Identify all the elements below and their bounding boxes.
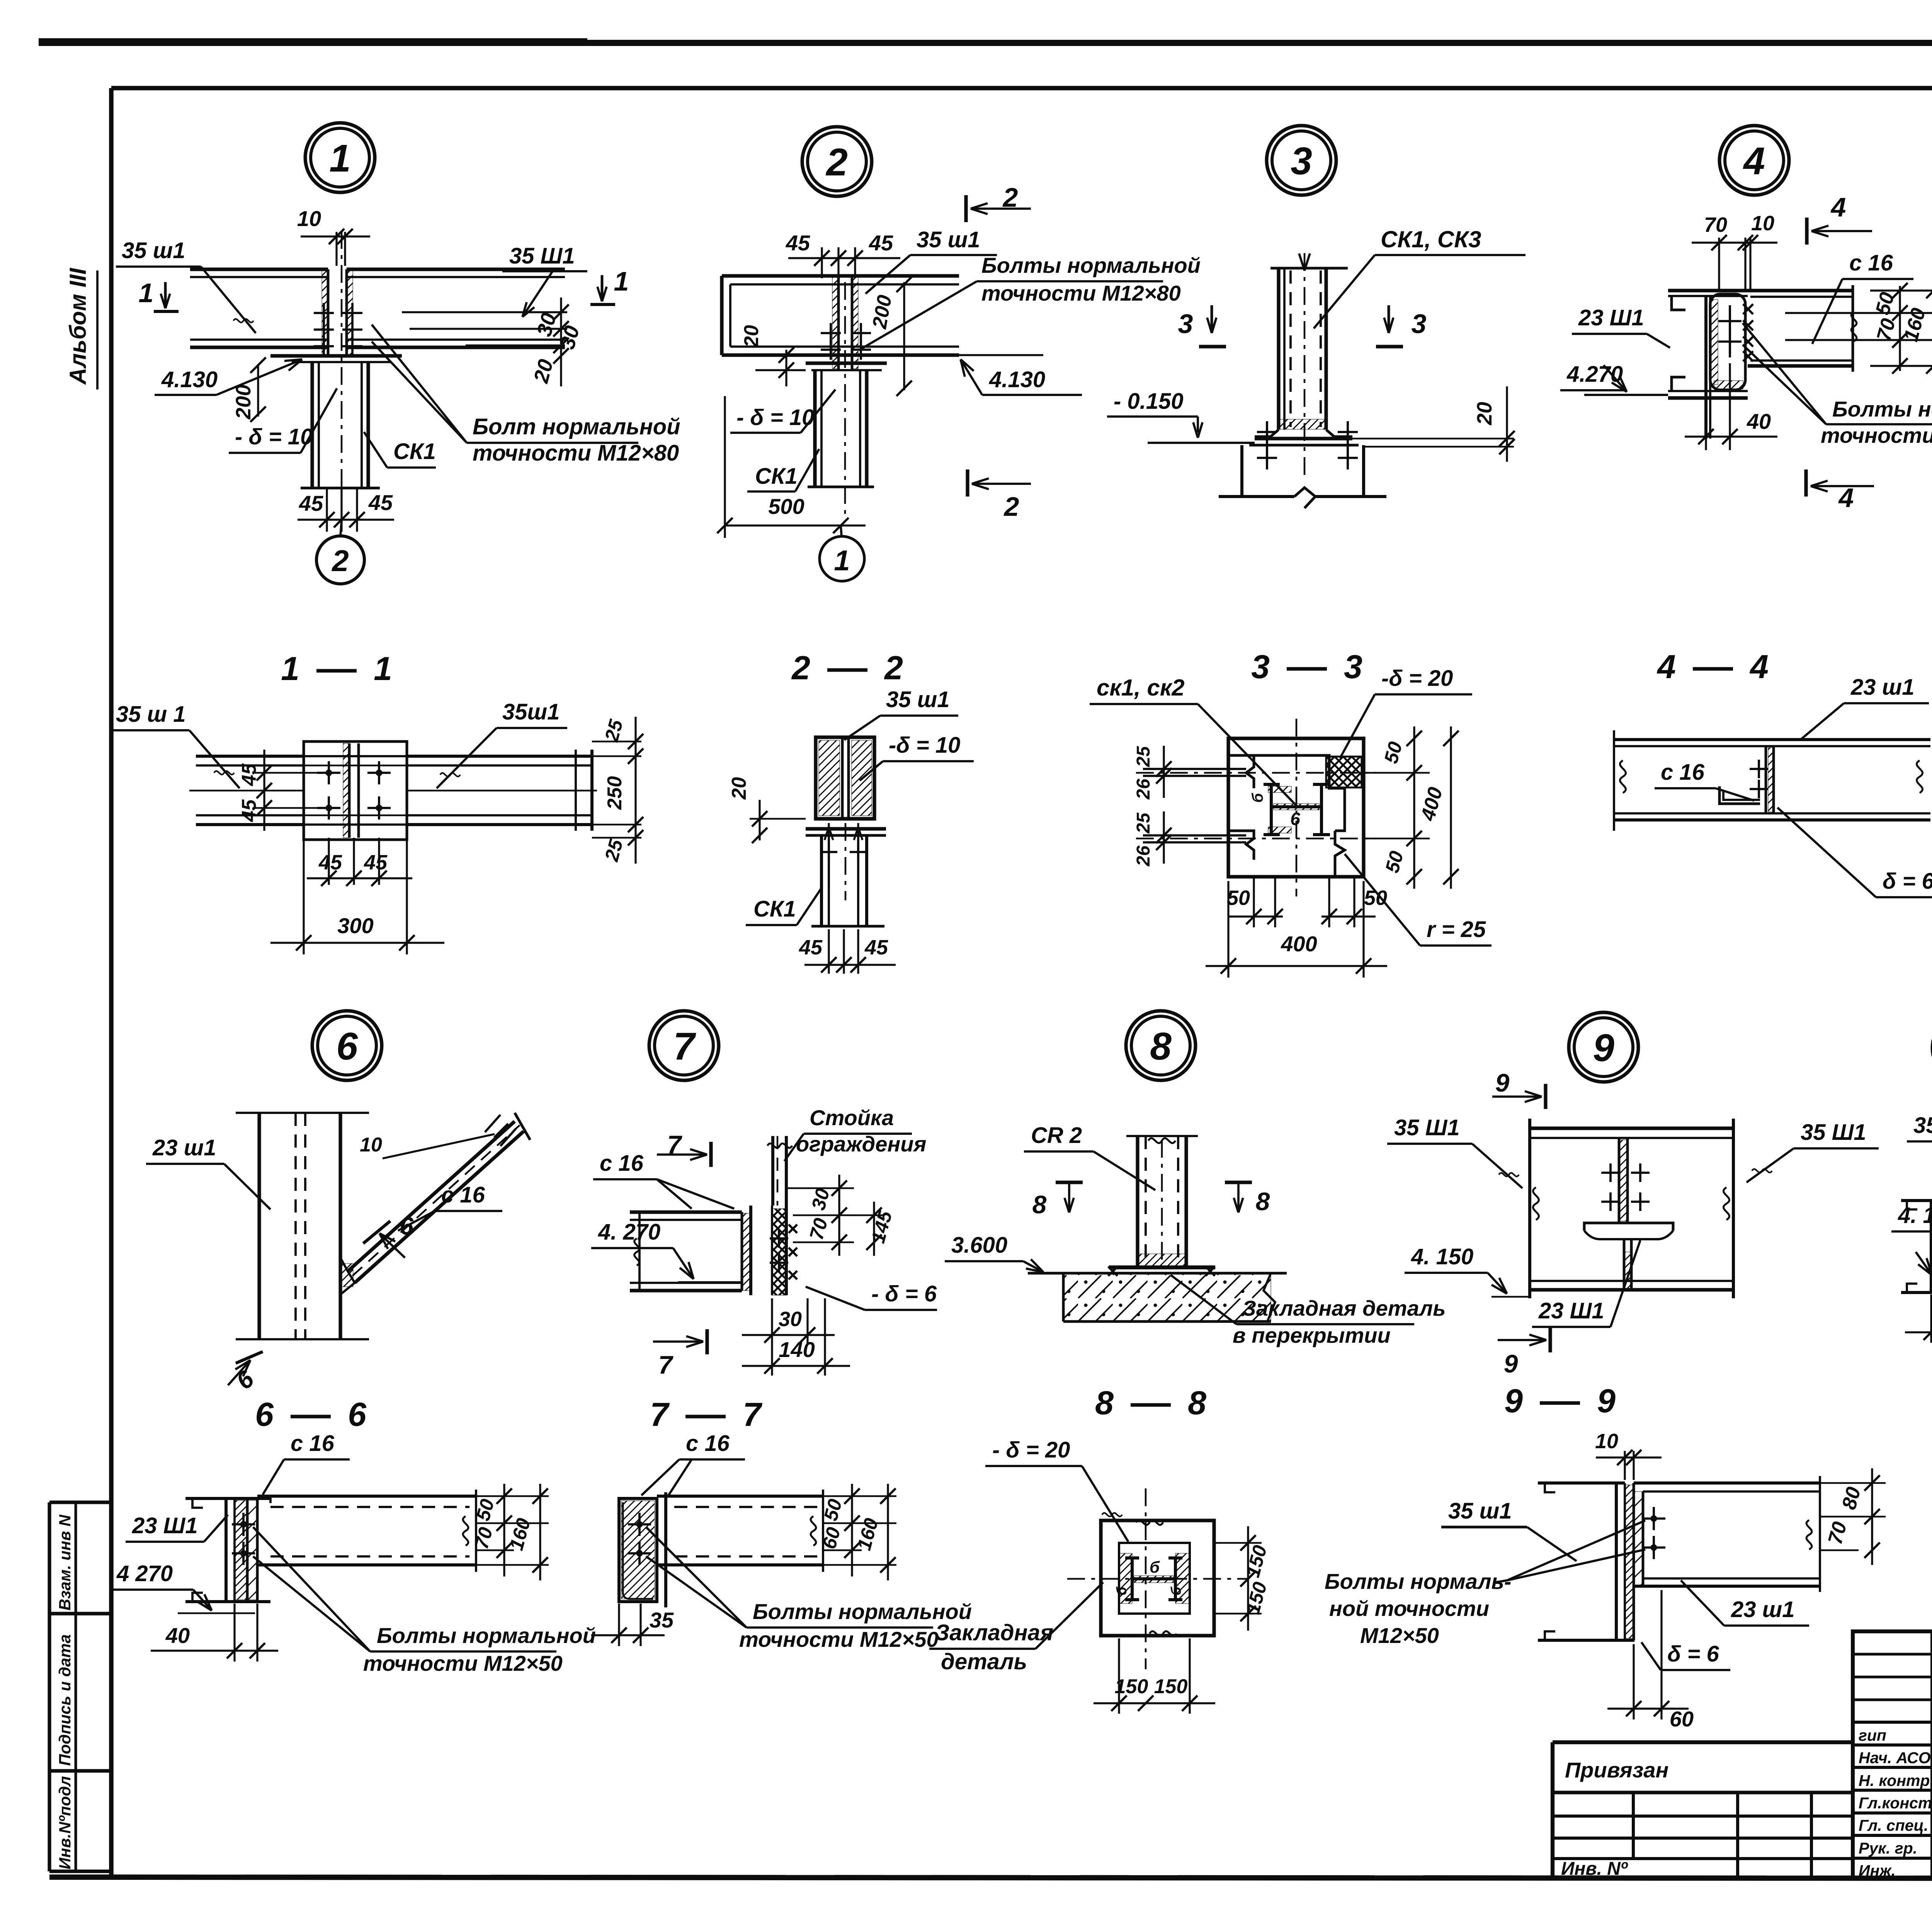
section 1-1 left dims 45 45 bbox=[263, 750, 265, 831]
detail 7 stanchion post above bbox=[771, 1136, 774, 1206]
detail 3 anchor bolts bbox=[1257, 431, 1277, 433]
svg-text:ной точности: ной точности bbox=[1329, 1596, 1489, 1621]
svg-text:- δ = 10: - δ = 10 bbox=[235, 424, 313, 449]
svg-text:точности М12×50: точности М12×50 bbox=[739, 1627, 939, 1651]
svg-text:10: 10 bbox=[1595, 1430, 1618, 1453]
section 6-6 beam c16 dashed bbox=[269, 1496, 272, 1503]
node circle 1 below detail 2 bbox=[820, 536, 864, 581]
detail 8 concrete slab hatched bbox=[1063, 1273, 1271, 1321]
svg-text:150: 150 bbox=[1115, 1675, 1148, 1698]
privyazan table bbox=[1553, 1740, 1853, 1744]
detail 1 right dim lines 30 30 20 bbox=[402, 311, 567, 313]
svg-text:20: 20 bbox=[728, 777, 750, 800]
svg-text:r = 25: r = 25 bbox=[1427, 917, 1486, 942]
section 8-8 column H section bbox=[1131, 1558, 1134, 1600]
svg-text:400: 400 bbox=[1417, 785, 1447, 823]
svg-text:35 ш1: 35 ш1 bbox=[886, 687, 949, 712]
paper top edge line bbox=[39, 40, 1932, 46]
svg-text:-δ = 10: -δ = 10 bbox=[889, 733, 960, 758]
section 1-1 left rail bbox=[196, 755, 304, 758]
svg-text:точности М12×50: точности М12×50 bbox=[363, 1651, 563, 1675]
svg-text:23 Ш1: 23 Ш1 bbox=[132, 1513, 198, 1538]
svg-text:400: 400 bbox=[1281, 932, 1317, 956]
detail 3 footing outline bbox=[1240, 445, 1243, 497]
node circle 2 below detail 1 bbox=[316, 536, 364, 584]
detail 2 column centerline bbox=[844, 282, 846, 520]
detail 8 column SK2 bbox=[1136, 1136, 1139, 1267]
section 4-4 splice plate weld bbox=[1765, 746, 1767, 813]
svg-text:45: 45 bbox=[238, 763, 260, 786]
svg-text:с 16: с 16 bbox=[1661, 760, 1705, 785]
detail 9 beam 35Sh1 box bbox=[1530, 1126, 1733, 1130]
detail 2 column SK1 bbox=[813, 370, 816, 487]
svg-text:45: 45 bbox=[869, 231, 893, 255]
svg-text:4. 270: 4. 270 bbox=[598, 1219, 660, 1245]
svg-text:Стойка: Стойка bbox=[810, 1105, 894, 1130]
detail circle 3 bbox=[1267, 126, 1336, 195]
detail 2 dim 200 bbox=[903, 282, 905, 390]
detail 2 bracket plate bbox=[806, 361, 887, 365]
section 7-7 bolts bbox=[628, 1523, 651, 1526]
svg-text:45: 45 bbox=[799, 936, 823, 959]
svg-text:δ = 6: δ = 6 bbox=[1883, 869, 1932, 894]
svg-text:30: 30 bbox=[807, 1186, 834, 1212]
detail 1 top dim 10 bbox=[335, 232, 337, 266]
detail 7 right dims 30 70 145 bbox=[786, 1187, 854, 1189]
svg-text:2: 2 bbox=[825, 141, 848, 184]
svg-text:в перекрытии: в перекрытии bbox=[1233, 1323, 1391, 1347]
section 3-3 center lines bbox=[1136, 772, 1376, 774]
detail circle 4 bbox=[1719, 126, 1789, 195]
svg-text:6: 6 bbox=[348, 1396, 367, 1433]
svg-text:Инв.Nºподл: Инв.Nºподл bbox=[56, 1776, 74, 1869]
section 1-1 bolts bbox=[317, 772, 340, 774]
detail 3 column SK1 SK3 bbox=[1270, 267, 1348, 270]
section 9-9 right dims 80 70 bbox=[1820, 1482, 1886, 1484]
detail 2 splice plates with weld bbox=[832, 277, 838, 369]
detail 1 bracket plate under beam bbox=[270, 354, 402, 357]
svg-text:ограждения: ограждения bbox=[796, 1132, 926, 1156]
svg-text:с 16: с 16 bbox=[600, 1151, 644, 1176]
svg-text:4: 4 bbox=[1830, 192, 1846, 222]
detail 3 column base haunch and weld bbox=[1255, 430, 1279, 437]
detail 1 splice plates with weld bbox=[322, 270, 328, 357]
svg-text:20: 20 bbox=[529, 357, 558, 386]
section 3-3 left dims 25 26 25 26 bbox=[1163, 746, 1165, 798]
svg-text:Нач. АСО: Нач. АСО bbox=[1859, 1749, 1931, 1767]
section 7-7 plate right bbox=[664, 1492, 667, 1607]
detail 4 gusset plate with weld bbox=[1710, 294, 1745, 390]
detail circle 1 bbox=[305, 123, 375, 192]
svg-text:Гл. спец.: Гл. спец. bbox=[1859, 1816, 1928, 1834]
svg-text:9: 9 bbox=[1495, 1068, 1510, 1097]
svg-text:8: 8 bbox=[1256, 1187, 1270, 1216]
svg-text:145: 145 bbox=[867, 1208, 896, 1245]
svg-text:Болты нормальной: Болты нормальной bbox=[981, 253, 1201, 277]
section 9-9 splice plate weld bbox=[1633, 1483, 1635, 1640]
svg-text:200: 200 bbox=[868, 293, 896, 331]
section 3-3 right dims 50 400 50 bbox=[1364, 772, 1430, 774]
svg-text:200: 200 bbox=[232, 384, 255, 420]
detail circle 8 bbox=[1126, 1011, 1196, 1080]
svg-text:СК1: СК1 bbox=[393, 439, 436, 464]
detail 1 column SK1 bbox=[310, 362, 314, 488]
svg-text:10: 10 bbox=[360, 1134, 382, 1156]
svg-text:10: 10 bbox=[1751, 212, 1774, 235]
detail 6 diagonal end weld at column bbox=[340, 1258, 355, 1294]
svg-text:35 Ш1: 35 Ш1 bbox=[509, 243, 575, 269]
section 2-2 twin channel section bbox=[816, 737, 874, 819]
svg-text:3: 3 bbox=[1178, 309, 1193, 339]
svg-text:Болты нормальной: Болты нормальной bbox=[1832, 397, 1932, 421]
section 6-6 column I-section bbox=[185, 1497, 270, 1500]
svg-text:26: 26 bbox=[1133, 845, 1154, 867]
detail 1 dim 200 bbox=[257, 365, 259, 417]
section 9-9 plate right bbox=[1642, 1492, 1645, 1586]
svg-text:Гл.констр.: Гл.констр. bbox=[1859, 1794, 1932, 1812]
detail 6 diagonal c16 bbox=[348, 1121, 515, 1271]
detail 10 bottom dim 180 bbox=[1930, 1294, 1932, 1343]
detail 2 top dim 45 45 bbox=[821, 247, 823, 278]
svg-text:1: 1 bbox=[614, 266, 629, 296]
svg-text:4.130: 4.130 bbox=[161, 367, 218, 392]
svg-text:140: 140 bbox=[779, 1337, 815, 1362]
detail 10 channel section bbox=[1901, 1199, 1932, 1202]
detail 3 base plate bbox=[1255, 437, 1352, 440]
svg-text:23 Ш1: 23 Ш1 bbox=[1538, 1298, 1604, 1323]
svg-text:50: 50 bbox=[1227, 886, 1250, 910]
svg-text:- δ = 10: - δ = 10 bbox=[736, 405, 814, 430]
svg-text:250: 250 bbox=[604, 776, 626, 810]
detail circle 6 bbox=[312, 1011, 382, 1080]
svg-text:Н. контр.: Н. контр. bbox=[1859, 1772, 1932, 1789]
svg-text:35 ш 1: 35 ш 1 bbox=[116, 702, 186, 727]
svg-text:- 0.150: - 0.150 bbox=[1114, 389, 1184, 414]
detail 1 left beam 35Sh1 bbox=[190, 267, 328, 271]
svg-text:деталь: деталь bbox=[941, 1649, 1027, 1674]
svg-text:3: 3 bbox=[1412, 309, 1427, 339]
section 9-9 top dim 10 bbox=[1624, 1451, 1626, 1480]
svg-text:1: 1 bbox=[281, 650, 299, 687]
detail 4 channel 23Sh1 top flange bbox=[1668, 289, 1748, 292]
svg-text:7: 7 bbox=[673, 1025, 696, 1068]
section 9-9 bottom dim 60 bbox=[1633, 1644, 1634, 1719]
svg-text:СК1: СК1 bbox=[753, 896, 796, 922]
detail 8 base plate bbox=[1109, 1265, 1215, 1269]
detail 7 bottom dims 30 140 bbox=[771, 1298, 773, 1376]
svg-text:40: 40 bbox=[1747, 409, 1771, 434]
svg-text:3: 3 bbox=[1291, 139, 1312, 183]
section 1-1 bottom dims 45 45 300 bbox=[328, 838, 330, 885]
section 7-7 bottom dim 35 bbox=[618, 1604, 620, 1646]
svg-text:7: 7 bbox=[658, 1350, 674, 1379]
title block outer box bbox=[1853, 1631, 1932, 1878]
svg-text:ск1, ск2: ск1, ск2 bbox=[1097, 675, 1185, 701]
svg-text:Подпись и дата: Подпись и дата bbox=[56, 1634, 74, 1766]
detail 9 bolts bbox=[1601, 1172, 1620, 1174]
section 2-2 base plate bbox=[816, 817, 874, 820]
svg-text:6: 6 bbox=[255, 1396, 274, 1433]
section 6-6 splice plate weld bbox=[246, 1498, 249, 1602]
svg-text:- δ = 20: - δ = 20 bbox=[992, 1437, 1070, 1463]
svg-text:160: 160 bbox=[1900, 306, 1930, 344]
svg-text:45: 45 bbox=[299, 491, 323, 515]
section 1-1 right rail bbox=[407, 755, 592, 758]
svg-text:70: 70 bbox=[1824, 1519, 1851, 1547]
svg-text:35 ш1: 35 ш1 bbox=[1448, 1498, 1512, 1524]
section 4-4 beam 23Sh1 rails bbox=[1614, 738, 1930, 741]
svg-text:300: 300 bbox=[337, 913, 373, 938]
svg-text:точности М12×80: точности М12×80 bbox=[981, 281, 1181, 305]
detail circle 9 bbox=[1569, 1012, 1638, 1082]
section 3-3 inner plate outline bbox=[1254, 755, 1345, 831]
section 3-3 plate corner slots bbox=[1228, 755, 1254, 788]
section 8-8 inner plate bbox=[1119, 1543, 1190, 1614]
svg-text:160: 160 bbox=[505, 1516, 535, 1553]
detail 8 column centerline bbox=[1161, 1140, 1163, 1264]
svg-text:26: 26 bbox=[1133, 779, 1154, 800]
svg-text:20: 20 bbox=[1473, 402, 1496, 425]
svg-text:8: 8 bbox=[1095, 1384, 1114, 1422]
detail 7 plate and stanchion bbox=[785, 1206, 788, 1295]
svg-text:гип: гип bbox=[1859, 1726, 1886, 1744]
svg-text:δ = 6: δ = 6 bbox=[1667, 1641, 1719, 1667]
svg-text:точности М12×80: точности М12×80 bbox=[473, 440, 679, 466]
svg-text:25: 25 bbox=[600, 717, 627, 744]
section 3-3 base plate square bbox=[1228, 738, 1364, 877]
svg-text:7: 7 bbox=[743, 1396, 763, 1433]
svg-text:3: 3 bbox=[1251, 648, 1270, 685]
section 3-3 anchor rods left bbox=[1143, 768, 1246, 770]
section 2-2 bottom dims 45 45 bbox=[828, 929, 830, 974]
svg-text:70: 70 bbox=[1704, 213, 1727, 236]
detail 9 vertical stiffener weld bbox=[1618, 1138, 1621, 1223]
svg-text:10: 10 bbox=[297, 206, 321, 231]
svg-text:- δ = 6: - δ = 6 bbox=[871, 1281, 937, 1306]
detail 4 top dims 70 10 bbox=[1718, 238, 1720, 291]
section 7-7 beam c16 dashed bbox=[657, 1495, 823, 1498]
section 3-3 column H profile bbox=[1270, 784, 1273, 835]
svg-text:35 Ш1: 35 Ш1 bbox=[1394, 1115, 1460, 1140]
section 8-8 right dims 150 150 bbox=[1214, 1542, 1262, 1544]
svg-text:с 16: с 16 bbox=[686, 1431, 730, 1456]
svg-text:Инв. Nº: Инв. Nº bbox=[1561, 1859, 1628, 1879]
svg-text:2: 2 bbox=[884, 650, 903, 687]
svg-text:40: 40 bbox=[165, 1623, 190, 1648]
svg-text:Закладная: Закладная bbox=[935, 1620, 1053, 1645]
svg-text:Рук. гр.: Рук. гр. bbox=[1859, 1839, 1917, 1857]
svg-text:160: 160 bbox=[853, 1516, 883, 1553]
svg-text:6: 6 bbox=[336, 1025, 358, 1068]
svg-text:2: 2 bbox=[791, 650, 810, 687]
svg-text:б: б bbox=[1249, 793, 1266, 803]
section 7-7 box section bbox=[619, 1498, 657, 1602]
svg-text:4. 150: 4. 150 bbox=[1411, 1244, 1473, 1269]
section 1-1 rails through box bbox=[304, 755, 407, 757]
detail 2 bolts bbox=[821, 332, 841, 334]
section 6-6 bottom dim 40 bbox=[233, 1604, 235, 1662]
svg-text:45: 45 bbox=[238, 799, 260, 822]
detail 7 bolts bbox=[770, 1237, 788, 1240]
detail 9 bracket T below bbox=[1584, 1223, 1673, 1231]
svg-text:7: 7 bbox=[650, 1396, 670, 1433]
svg-text:500: 500 bbox=[768, 494, 804, 519]
svg-text:60: 60 bbox=[1670, 1707, 1694, 1731]
svg-text:3.600: 3.600 bbox=[951, 1233, 1007, 1258]
svg-text:Взам. инв N: Взам. инв N bbox=[56, 1514, 74, 1611]
svg-text:35 ш1: 35 ш1 bbox=[917, 227, 980, 252]
svg-text:45: 45 bbox=[864, 936, 888, 959]
svg-text:25: 25 bbox=[600, 837, 627, 864]
svg-text:150: 150 bbox=[1242, 1543, 1271, 1580]
section 2-2 anchor bolts bbox=[820, 851, 837, 853]
svg-text:4: 4 bbox=[1749, 648, 1769, 685]
section 4-4 channel c16 bracket bbox=[1719, 786, 1760, 804]
svg-text:6: 6 bbox=[231, 1365, 259, 1395]
svg-text:-δ = 20: -δ = 20 bbox=[1381, 666, 1453, 691]
svg-text:9: 9 bbox=[1597, 1383, 1616, 1420]
svg-text:30: 30 bbox=[779, 1308, 802, 1331]
svg-text:35: 35 bbox=[650, 1608, 674, 1632]
detail 6 vertical member 23Sh1 bbox=[236, 1112, 369, 1114]
svg-text:6: 6 bbox=[400, 1212, 413, 1240]
svg-text:б: б bbox=[1114, 1586, 1129, 1595]
svg-text:80: 80 bbox=[1838, 1485, 1865, 1512]
svg-text:45: 45 bbox=[364, 851, 388, 874]
svg-text:Инж.: Инж. bbox=[1859, 1862, 1896, 1879]
detail 1 right beam 35Sh1 bbox=[347, 267, 565, 271]
section 9-9 bolts bbox=[1642, 1517, 1665, 1520]
svg-text:35ш1: 35ш1 bbox=[502, 699, 560, 724]
svg-text:3: 3 bbox=[1344, 648, 1362, 685]
svg-text:70: 70 bbox=[805, 1216, 832, 1242]
detail 4 right dims 50 70 160 bbox=[1785, 312, 1932, 314]
detail 6 dim 10 on diagonal bbox=[485, 1115, 500, 1132]
section 6-6 bolts bbox=[232, 1523, 255, 1526]
svg-text:20: 20 bbox=[740, 325, 763, 348]
detail circle 7 bbox=[649, 1011, 719, 1080]
detail 3 dim 20 right bbox=[1352, 438, 1514, 440]
svg-text:23 ш1: 23 ш1 bbox=[1850, 675, 1914, 700]
svg-text:23 Ш1: 23 Ш1 bbox=[1578, 305, 1644, 330]
svg-text:6: 6 bbox=[1290, 809, 1300, 829]
svg-text:2: 2 bbox=[1003, 492, 1019, 522]
detail 1 bolts bbox=[314, 312, 334, 314]
svg-text:1: 1 bbox=[139, 278, 154, 308]
detail 4 channel web bbox=[1704, 296, 1708, 439]
svg-text:2: 2 bbox=[331, 544, 349, 578]
svg-text:точности М12 × 50: точности М12 × 50 bbox=[1821, 423, 1932, 447]
left margin stamp boxes bbox=[49, 1500, 111, 1504]
svg-text:с 16: с 16 bbox=[291, 1431, 335, 1456]
svg-text:8: 8 bbox=[1032, 1190, 1047, 1219]
detail 1 bottom dim 45 45 bbox=[326, 488, 328, 532]
svg-text:Закладная деталь: Закладная деталь bbox=[1242, 1296, 1446, 1320]
svg-text:1: 1 bbox=[834, 544, 850, 577]
detail 7 splice plate weld bbox=[741, 1212, 743, 1291]
svg-text:45: 45 bbox=[368, 490, 393, 515]
svg-text:23 ш1: 23 ш1 bbox=[1731, 1597, 1794, 1622]
svg-text:Альбом III: Альбом III bbox=[65, 268, 91, 385]
section 8-8 embed plate outer bbox=[1101, 1520, 1214, 1636]
svg-text:45: 45 bbox=[786, 231, 810, 255]
svg-text:4.130: 4.130 bbox=[989, 367, 1045, 392]
svg-text:СК1: СК1 bbox=[755, 464, 798, 489]
section 7-7 right dims 50 60 160 bbox=[823, 1495, 896, 1497]
section 9-9 column 35Sh1 I-section bbox=[1538, 1481, 1625, 1485]
svg-text:8: 8 bbox=[1150, 1025, 1172, 1068]
detail 4 bottom dim 40 bbox=[1705, 439, 1707, 450]
svg-text:23 ш1: 23 ш1 bbox=[152, 1135, 216, 1160]
svg-text:150: 150 bbox=[1154, 1675, 1188, 1698]
svg-text:35 ш1: 35 ш1 bbox=[1913, 1113, 1932, 1138]
section 4-4 bolts bbox=[1750, 768, 1768, 770]
svg-text:50: 50 bbox=[1380, 739, 1406, 765]
svg-text:б: б bbox=[1168, 1586, 1184, 1595]
section 2-2 column below bbox=[820, 835, 823, 926]
svg-text:35 ш1: 35 ш1 bbox=[122, 238, 185, 263]
detail 2 dim 500 bbox=[724, 396, 726, 538]
svg-text:с 16: с 16 bbox=[441, 1182, 485, 1207]
svg-text:45: 45 bbox=[318, 851, 342, 874]
detail 1 column centerline bbox=[341, 231, 343, 522]
svg-text:9: 9 bbox=[1504, 1349, 1518, 1378]
drawing frame bbox=[111, 86, 1932, 90]
svg-text:4: 4 bbox=[1656, 648, 1676, 685]
svg-text:1: 1 bbox=[374, 650, 392, 687]
section 2-2 dim 20 bbox=[759, 800, 760, 840]
svg-text:70: 70 bbox=[470, 1525, 497, 1551]
svg-text:СR 2: СR 2 bbox=[1031, 1123, 1082, 1148]
section 1-1 splice weld plates bbox=[343, 743, 349, 838]
detail circle 2 bbox=[802, 127, 872, 196]
detail 4 channel bottom flange bbox=[1668, 390, 1748, 392]
svg-text:8: 8 bbox=[1188, 1384, 1206, 1422]
svg-text:1: 1 bbox=[329, 137, 351, 180]
svg-text:4: 4 bbox=[1743, 139, 1765, 183]
svg-text:М12×50: М12×50 bbox=[1360, 1623, 1439, 1648]
svg-text:Болты нормальной: Болты нормальной bbox=[377, 1623, 596, 1648]
section 6-6 right dims 50 70 160 bbox=[476, 1495, 549, 1497]
detail 2 dim 20 left bbox=[785, 350, 787, 386]
svg-text:Привязан: Привязан bbox=[1565, 1758, 1668, 1782]
svg-text:СК1, СК3: СК1, СК3 bbox=[1381, 226, 1481, 252]
section 9-9 beam right bbox=[1634, 1481, 1820, 1485]
svg-text:25: 25 bbox=[1133, 812, 1154, 834]
title block left part grid bbox=[1853, 1653, 1932, 1656]
svg-text:4 270: 4 270 bbox=[116, 1561, 173, 1586]
detail 7 beam c16 bbox=[630, 1210, 742, 1214]
section 1-1 splice cover box bbox=[304, 742, 407, 840]
svg-text:Болты нормаль-: Болты нормаль- bbox=[1325, 1569, 1511, 1594]
svg-text:Болт нормальной: Болт нормальной bbox=[473, 414, 680, 439]
svg-text:9: 9 bbox=[1504, 1383, 1523, 1420]
svg-text:150: 150 bbox=[1242, 1580, 1271, 1616]
section 1-1 right dims 25 250 25 bbox=[592, 741, 641, 743]
svg-text:35 Ш1: 35 Ш1 bbox=[1801, 1120, 1866, 1145]
detail 4 beam C16 bbox=[1748, 289, 1853, 292]
section 8-8 bottom dims 150 150 bbox=[1118, 1638, 1120, 1714]
section 3-3 bolt plate hatched top right bbox=[1326, 757, 1362, 787]
detail 4 bolts bbox=[1718, 320, 1742, 322]
svg-text:4. 150: 4. 150 bbox=[1898, 1203, 1932, 1228]
svg-text:50: 50 bbox=[1381, 849, 1408, 875]
detail 2 beam 35Sh1 bbox=[722, 274, 959, 277]
svg-text:б: б bbox=[1150, 1558, 1160, 1576]
svg-text:9: 9 bbox=[1593, 1026, 1614, 1070]
svg-text:с 16: с 16 bbox=[1849, 250, 1893, 276]
section 3-3 bottom dims 50 50 400 bbox=[1253, 877, 1255, 927]
